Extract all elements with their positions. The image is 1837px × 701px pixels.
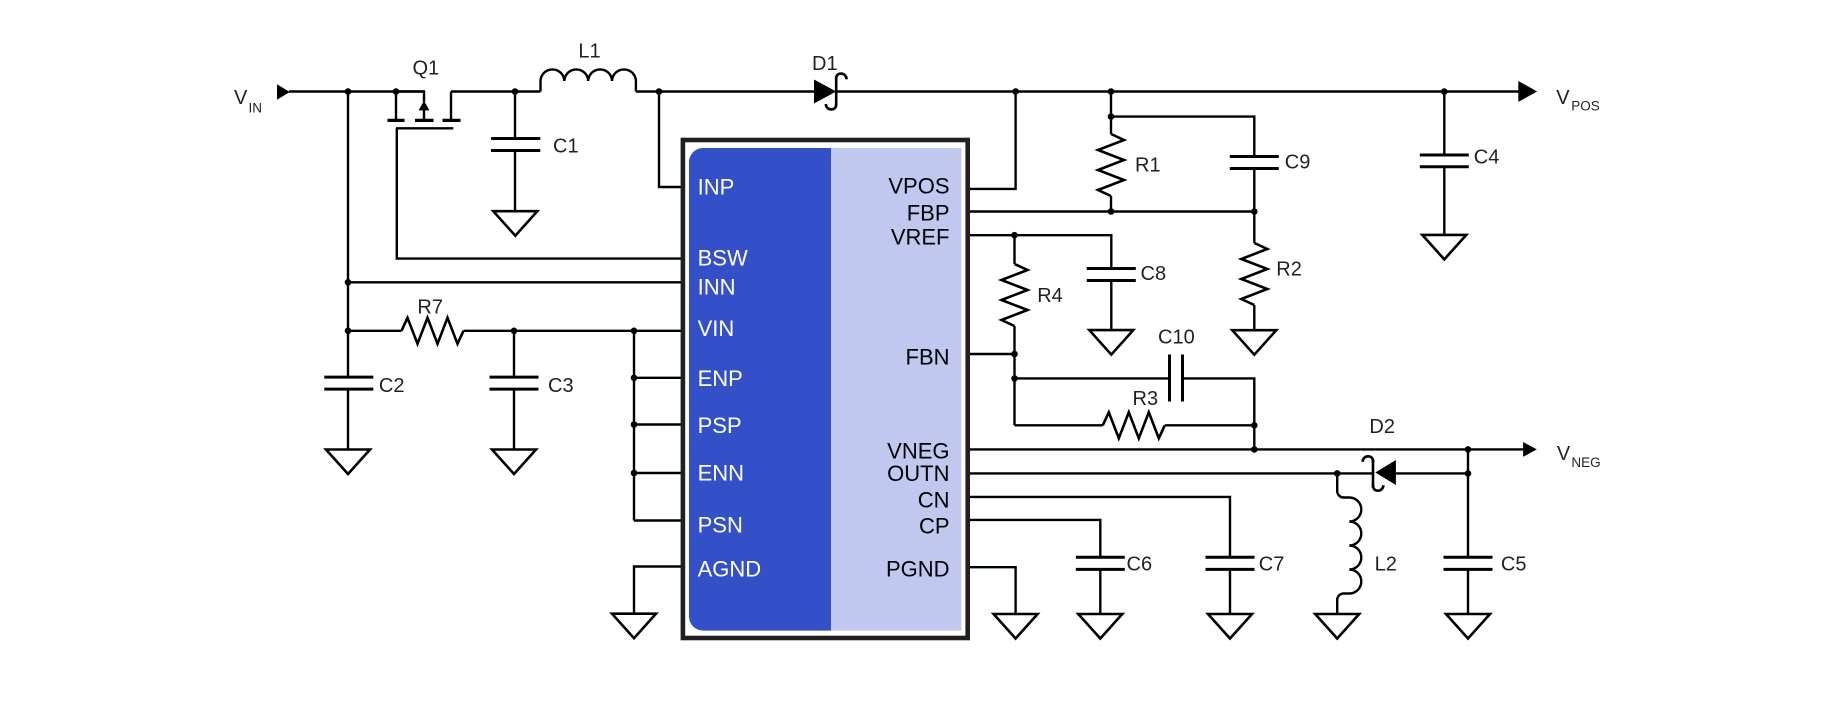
junction VIN line / enable chain	[631, 328, 638, 335]
ground below C1	[493, 211, 537, 236]
resistor R4	[1002, 264, 1028, 326]
wire C7 bottom lead	[1229, 569, 1231, 613]
svg-text:BSW: BSW	[698, 246, 748, 271]
junction enable chain / ENN	[631, 470, 638, 477]
capacitor C2	[324, 377, 373, 389]
wire L1 to D1 anode	[636, 90, 814, 92]
capacitor C3	[490, 377, 539, 389]
wire R3 right lead	[1165, 424, 1255, 426]
wire INP branch	[659, 92, 683, 188]
junction switch node / C1	[512, 88, 519, 95]
svg-text:FBP: FBP	[907, 200, 950, 225]
junction VNEG line / C5 tie	[1465, 446, 1472, 453]
wire AGND stub	[634, 567, 683, 614]
node VPOS output arrow	[1518, 81, 1537, 102]
junction R3-C10 right node	[1251, 422, 1258, 429]
wire R3 left lead	[1015, 424, 1103, 426]
wire C1 lower lead	[514, 151, 516, 212]
svg-text:L1: L1	[578, 41, 600, 63]
svg-text:L2: L2	[1375, 554, 1397, 576]
junction OUTN line / L2	[1334, 470, 1341, 477]
capacitor C7	[1206, 557, 1255, 569]
junction switch node / INP branch	[656, 88, 663, 95]
wire top rail Q1 drain to L1	[451, 90, 541, 92]
svg-text:V: V	[1557, 443, 1571, 465]
junction enable chain / PSP	[631, 421, 638, 428]
wire R7 left lead	[348, 330, 402, 332]
wire INN line	[348, 281, 683, 283]
IC U1 right half (lavender)	[831, 148, 961, 631]
wire C3 lower lead	[513, 389, 515, 450]
capacitor C5	[1444, 557, 1493, 569]
resistor R2	[1241, 243, 1267, 305]
wire enable chain vertical	[633, 331, 635, 521]
svg-text:C10: C10	[1158, 327, 1195, 349]
wire VREF line	[967, 235, 1111, 268]
svg-text:AGND: AGND	[698, 557, 762, 582]
svg-text:IN: IN	[249, 100, 263, 115]
resistor R3	[1103, 412, 1165, 438]
wire OUTN line to D2 cathode	[967, 472, 1373, 474]
wire C10 right lead	[1183, 378, 1255, 425]
wire R4 top lead	[1013, 235, 1015, 264]
wire C6 bottom lead	[1099, 569, 1101, 613]
svg-text:VREF: VREF	[891, 225, 950, 250]
ground below C3	[492, 450, 536, 475]
ground below C5	[1446, 614, 1490, 639]
svg-text:PSN: PSN	[698, 513, 743, 538]
junction FBN branch / C10 line	[1011, 375, 1018, 382]
svg-text:OUTN: OUTN	[887, 461, 949, 486]
ground below R2	[1232, 330, 1276, 355]
svg-text:C4: C4	[1474, 146, 1500, 168]
svg-text:CN: CN	[918, 488, 950, 513]
svg-text:ENP: ENP	[698, 366, 743, 391]
junction FBN stub / R4 bottom	[1011, 351, 1018, 358]
node VIN input arrow	[277, 84, 290, 99]
wire C2 lower lead	[347, 389, 349, 450]
wire R2 top lead	[1253, 212, 1255, 244]
ground below C2	[326, 450, 370, 475]
wire PSP stub	[634, 423, 683, 425]
junction enable chain / ENP	[631, 375, 638, 382]
ground below C4	[1422, 235, 1466, 260]
capacitor C9	[1230, 157, 1279, 169]
wire C4 bottom lead	[1443, 167, 1445, 235]
wire C4 top lead	[1443, 92, 1445, 156]
svg-text:CP: CP	[919, 513, 950, 538]
capacitor C1	[491, 139, 540, 151]
diode D2 (schottky)	[1375, 460, 1396, 485]
wire C5 bottom lead	[1467, 569, 1469, 613]
ground below C7	[1208, 614, 1252, 639]
wire CN line to C7	[967, 497, 1230, 557]
wire FBP line	[967, 210, 1254, 212]
wire CP line to C6	[967, 520, 1100, 557]
wire FBN stub	[967, 353, 1015, 355]
wire R7 right lead to VIN pin	[464, 330, 684, 332]
svg-text:VIN: VIN	[698, 316, 735, 341]
wire C8 bottom lead	[1110, 281, 1112, 331]
junction VIN line / C3	[511, 328, 518, 335]
ground below PGND	[994, 614, 1038, 639]
svg-text:ENN: ENN	[698, 460, 744, 485]
junction VIN rail / input filter branch	[345, 88, 352, 95]
wire R1 top branch	[1110, 92, 1112, 135]
svg-text:C2: C2	[379, 375, 405, 397]
junction R7 line / C2	[345, 328, 352, 335]
wire C1 top lead	[514, 92, 516, 139]
capacitor C4	[1420, 155, 1469, 167]
svg-text:R4: R4	[1037, 285, 1063, 307]
svg-text:D2: D2	[1369, 416, 1395, 438]
junction VPOS rail / R1 branch	[1108, 88, 1115, 95]
wire C9 top branch	[1111, 117, 1254, 157]
inductor L1	[541, 69, 636, 91]
svg-text:Q1: Q1	[413, 57, 440, 79]
capacitor C10	[1170, 355, 1183, 402]
wire R4 bottom lead	[1013, 326, 1015, 354]
IC U1 left half (dark blue)	[689, 148, 831, 631]
wire R3 node down to VNEG line	[1253, 425, 1255, 449]
wire Q1 gate to BSW pin	[397, 128, 683, 258]
ground below L2	[1315, 614, 1359, 639]
wire R1 bottom lead	[1110, 196, 1112, 212]
junction OUTN line / C5	[1465, 470, 1472, 477]
svg-text:INP: INP	[698, 175, 735, 200]
junction R1 top / C9 branch	[1108, 113, 1115, 120]
svg-text:INN: INN	[698, 274, 736, 299]
junction VNEG line / R3 node	[1251, 446, 1258, 453]
svg-text:POS: POS	[1571, 99, 1600, 114]
wire ENP stub	[634, 377, 683, 379]
svg-text:VPOS: VPOS	[888, 174, 949, 199]
wire PSN stub	[634, 519, 683, 521]
svg-text:C8: C8	[1141, 263, 1167, 285]
wire D1 cathode to VPOS arrow	[836, 90, 1519, 92]
IC U1 outer border	[683, 140, 968, 638]
svg-text:C9: C9	[1285, 151, 1311, 173]
inductor L2	[1337, 473, 1361, 614]
svg-text:V: V	[234, 87, 248, 109]
svg-text:R7: R7	[417, 297, 443, 319]
wire left input branch vertical to INN and R7 and C2	[347, 92, 349, 378]
junction VREF line / R4 top	[1011, 232, 1018, 239]
svg-text:V: V	[1556, 87, 1570, 109]
wire top rail from VIN arrow to Q1 body tap	[289, 90, 424, 92]
wire VNEG to OUTN tie and C5 top lead	[1467, 449, 1469, 557]
svg-text:NEG: NEG	[1571, 455, 1600, 470]
diode D1 (schottky)	[814, 80, 836, 104]
wire D2 anode to C5 node	[1396, 472, 1468, 474]
svg-text:D1: D1	[812, 53, 838, 75]
svg-text:C1: C1	[553, 135, 579, 157]
svg-text:R3: R3	[1133, 388, 1159, 410]
junction INN line / input branch	[345, 279, 352, 286]
svg-text:C5: C5	[1501, 554, 1527, 576]
junction FBP line / R1 bottom	[1108, 208, 1115, 215]
svg-text:C3: C3	[548, 375, 574, 397]
ground below AGND	[612, 614, 656, 639]
junction VPOS rail / VPOS pin branch	[1012, 88, 1019, 95]
svg-text:PGND: PGND	[886, 557, 950, 582]
junction VPOS rail / C4	[1441, 88, 1448, 95]
ground below C6	[1078, 614, 1122, 639]
wire ENN stub	[634, 472, 683, 474]
svg-text:FBN: FBN	[906, 344, 950, 369]
node VNEG output arrow	[1523, 442, 1537, 457]
svg-text:R2: R2	[1276, 259, 1302, 281]
svg-text:C7: C7	[1259, 554, 1285, 576]
capacitor C6	[1076, 557, 1125, 569]
wire C3 drop	[513, 331, 515, 377]
svg-text:VNEG: VNEG	[887, 439, 949, 464]
capacitor C8	[1087, 269, 1136, 281]
wire VNEG line	[967, 448, 1524, 450]
wire VPOS pin branch	[967, 92, 1016, 189]
junction VIN rail / Q1 source	[393, 88, 400, 95]
svg-text:PSP: PSP	[698, 413, 742, 438]
wire C9 bottom lead	[1253, 169, 1255, 212]
wire C10 left lead	[1015, 377, 1170, 379]
resistor R7	[402, 318, 464, 344]
wire PGND stub	[967, 567, 1016, 614]
junction FBP line / C9-R2	[1251, 208, 1258, 215]
svg-text:R1: R1	[1135, 155, 1161, 177]
resistor R1	[1098, 134, 1124, 196]
ground below C8	[1089, 330, 1133, 355]
wire R2 bottom lead	[1253, 305, 1255, 330]
transistor Q1	[388, 92, 461, 129]
wire FBN vertical to R3	[1013, 354, 1015, 425]
svg-text:C6: C6	[1127, 554, 1153, 576]
